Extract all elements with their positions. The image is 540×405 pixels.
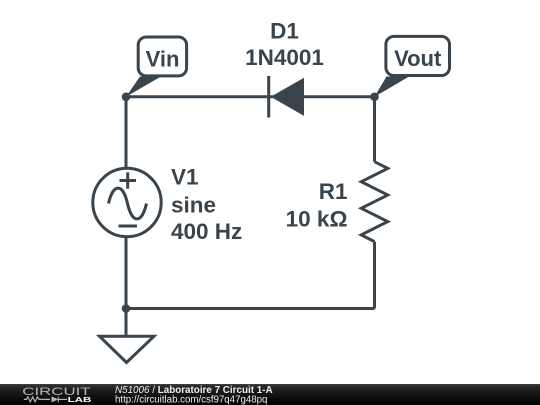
svg-text:http://circuitlab.com/csf97q47: http://circuitlab.com/csf97q47g48pq [115,394,267,405]
svg-text:LAB: LAB [68,395,92,404]
svg-text:R1: R1 [319,179,348,204]
svg-text:Vin: Vin [146,47,180,72]
svg-text:Vout: Vout [394,46,442,71]
svg-text:400 Hz: 400 Hz [171,219,242,244]
svg-text:V1: V1 [171,165,199,190]
svg-text:10 kΩ: 10 kΩ [286,207,348,232]
svg-text:1N4001: 1N4001 [245,45,324,70]
svg-text:sine: sine [171,193,216,218]
svg-text:D1: D1 [270,19,299,44]
